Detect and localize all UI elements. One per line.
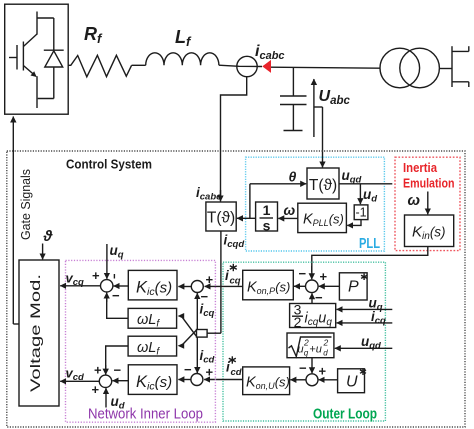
svg-text:−: − [299,266,307,281]
wire (sensor to transformer) [271,67,380,68]
block Kin(s) [405,215,454,247]
svg-text:+: + [206,272,214,287]
resistor Rf [68,55,131,77]
Uabc measurement probe [314,79,323,137]
wire (transformer to grid) [439,68,452,70]
svg-text:ϑ: ϑ [43,228,54,245]
svg-text:PLL: PLL [359,236,380,252]
svg-text:T(ϑ): T(ϑ) [309,177,337,194]
svg-text:Kic(s): Kic(s) [136,279,172,299]
capacitor C1 [280,68,307,131]
wire icd feedback down [196,337,198,373]
wire icqd down from T2 [220,231,222,333]
svg-text:Control System: Control System [66,158,152,172]
svg-text:+: + [94,363,102,378]
PLL dashed box [246,157,385,251]
wire (P* to S5) [319,285,340,287]
wire (theta into T1) [250,183,306,185]
block Kic(s) upper [128,270,177,300]
summing node S1 [101,280,113,292]
svg-text:ω: ω [284,202,296,218]
wire (1/s to T2) [237,217,256,219]
block T(theta) U1 (voltage transform) [307,168,339,199]
red measurement arrow [262,60,271,73]
wire (theta riser) [249,184,251,219]
wire (Kic upper to S1) [114,285,129,287]
wire (KonP to S2 icq*) [205,285,243,287]
block KonP(s) [243,270,294,300]
wire icq input [337,322,393,324]
svg-text:s: s [263,218,271,234]
wire (3/2 block up to S5) [311,293,313,303]
wire (Uabc signal down to T1) [322,107,324,167]
inverter box [5,4,68,114]
transistor Q1 (IGBT) [9,12,37,109]
svg-text:cq: cq [230,276,241,287]
gate signal wire (Voltage Mod to inverter) [13,117,19,325]
wire (KonU to S3 icd*) [204,379,243,381]
svg-text:i: i [225,268,229,283]
outer loop dashed box [223,262,385,421]
svg-text:Inertia: Inertia [403,160,438,175]
svg-text:2: 2 [294,314,302,330]
wire [132,64,146,66]
svg-text:-1: -1 [355,206,366,220]
control system dashed border [7,151,465,427]
block KonU(s) [243,367,290,395]
wire (S3 to Kic lower) [178,379,191,381]
wire diagonal (icq to wLf lower) [178,330,197,349]
wire (S6 to KonU) [290,379,306,381]
wire (Kin output to P summing node) [312,247,428,273]
diode D1 [44,18,64,99]
svg-text:−: − [315,290,323,305]
wire (wLf lower to S4 top) [106,346,128,371]
svg-text:1: 1 [263,202,271,218]
svg-text:+: + [92,268,100,283]
ground [284,130,303,132]
block wLf lower [128,336,177,357]
svg-text:cd: cd [231,367,242,378]
wire ud stub [105,388,107,407]
wire uq input [337,308,393,310]
svg-text:Kic(s): Kic(s) [136,373,172,393]
inertia emulation dashed box [395,157,460,250]
network inner loop dashed box [66,260,216,422]
summing node S4 [99,375,111,387]
svg-text:−: − [114,363,122,378]
wire uqd out of T1 [339,183,392,185]
crossover node box [197,330,208,338]
label icd* [226,356,242,378]
svg-text:+: + [320,269,328,284]
wire (S5 to KonP) [294,285,306,287]
wire omega (KPLL to 1/s) [278,217,298,219]
wire (S2 to Kic upper) [178,286,191,288]
wire (omega into Kin) [427,192,429,215]
summing node S2 [191,281,203,293]
wire (-1 to KPLL) [349,220,361,226]
summing node S6 [306,374,318,386]
svg-text:−: − [299,361,307,376]
svg-text:U: U [346,374,358,391]
label icq* [225,264,241,287]
inductor Lf [146,53,219,65]
wire [219,65,262,66]
sign tick (Kic input) [113,274,115,279]
svg-text:Outer Loop: Outer Loop [313,407,377,423]
wire (icabc from sensor down to T2) [221,77,247,202]
svg-text:Voltage Mod.: Voltage Mod. [27,274,43,392]
svg-text:−: − [184,362,192,377]
wire icq feedback up [196,293,198,329]
wire (Kic lower to S4) [113,380,129,382]
wire (icqd into crossover) [207,332,221,334]
wire ud branch [359,184,361,204]
block 3/2 icq uq [290,302,336,331]
svg-text:+: + [92,382,100,397]
block 1/s [256,202,278,234]
svg-text:θ: θ [289,169,297,185]
block wLf upper [128,308,177,329]
wire (wLf upper to S1 bottom) [107,296,128,318]
svg-text:+: + [319,364,327,379]
block T(theta) U2 (current transform) [206,202,236,231]
svg-text:P: P [348,279,359,296]
block U* [338,368,366,392]
block KPLL(s) [298,203,347,232]
wire (emitter to diode bottom) [38,98,54,100]
block sqrt(uq2+ud2) [287,333,334,358]
transformer TR1 [380,48,439,88]
current sensor node icabc [237,56,257,76]
svg-text:ω: ω [408,192,421,209]
block Voltage Mod [19,260,59,406]
wire (U* to S6) [319,379,338,381]
wire diagonal (icd to wLf upper) [178,313,197,336]
wire vcq (S1 to Voltage Mod) [60,285,100,287]
summing node S5 [306,280,319,293]
wire vcd (S4 to Voltage Mod) [60,380,99,382]
block P* [339,273,367,300]
grid symbol [452,46,469,87]
wire uq stub [106,244,108,279]
block Kic(s) lower [128,365,177,395]
wire uqd input [335,347,393,349]
summing node S3 [191,374,203,386]
wire (collector to diode top) [37,17,54,19]
block -1 [354,205,368,220]
svg-text:−: − [112,288,120,303]
svg-text:+: + [206,365,214,380]
svg-text:Gate Signals: Gate Signals [19,169,33,240]
wire (vartheta into Voltage Mod) [42,244,44,260]
svg-text:T(ϑ): T(ϑ) [207,210,235,227]
wire (sqrt down to S6) [311,358,313,374]
svg-text:Network Inner Loop: Network Inner Loop [88,407,203,423]
svg-text:Emulation: Emulation [403,176,455,191]
